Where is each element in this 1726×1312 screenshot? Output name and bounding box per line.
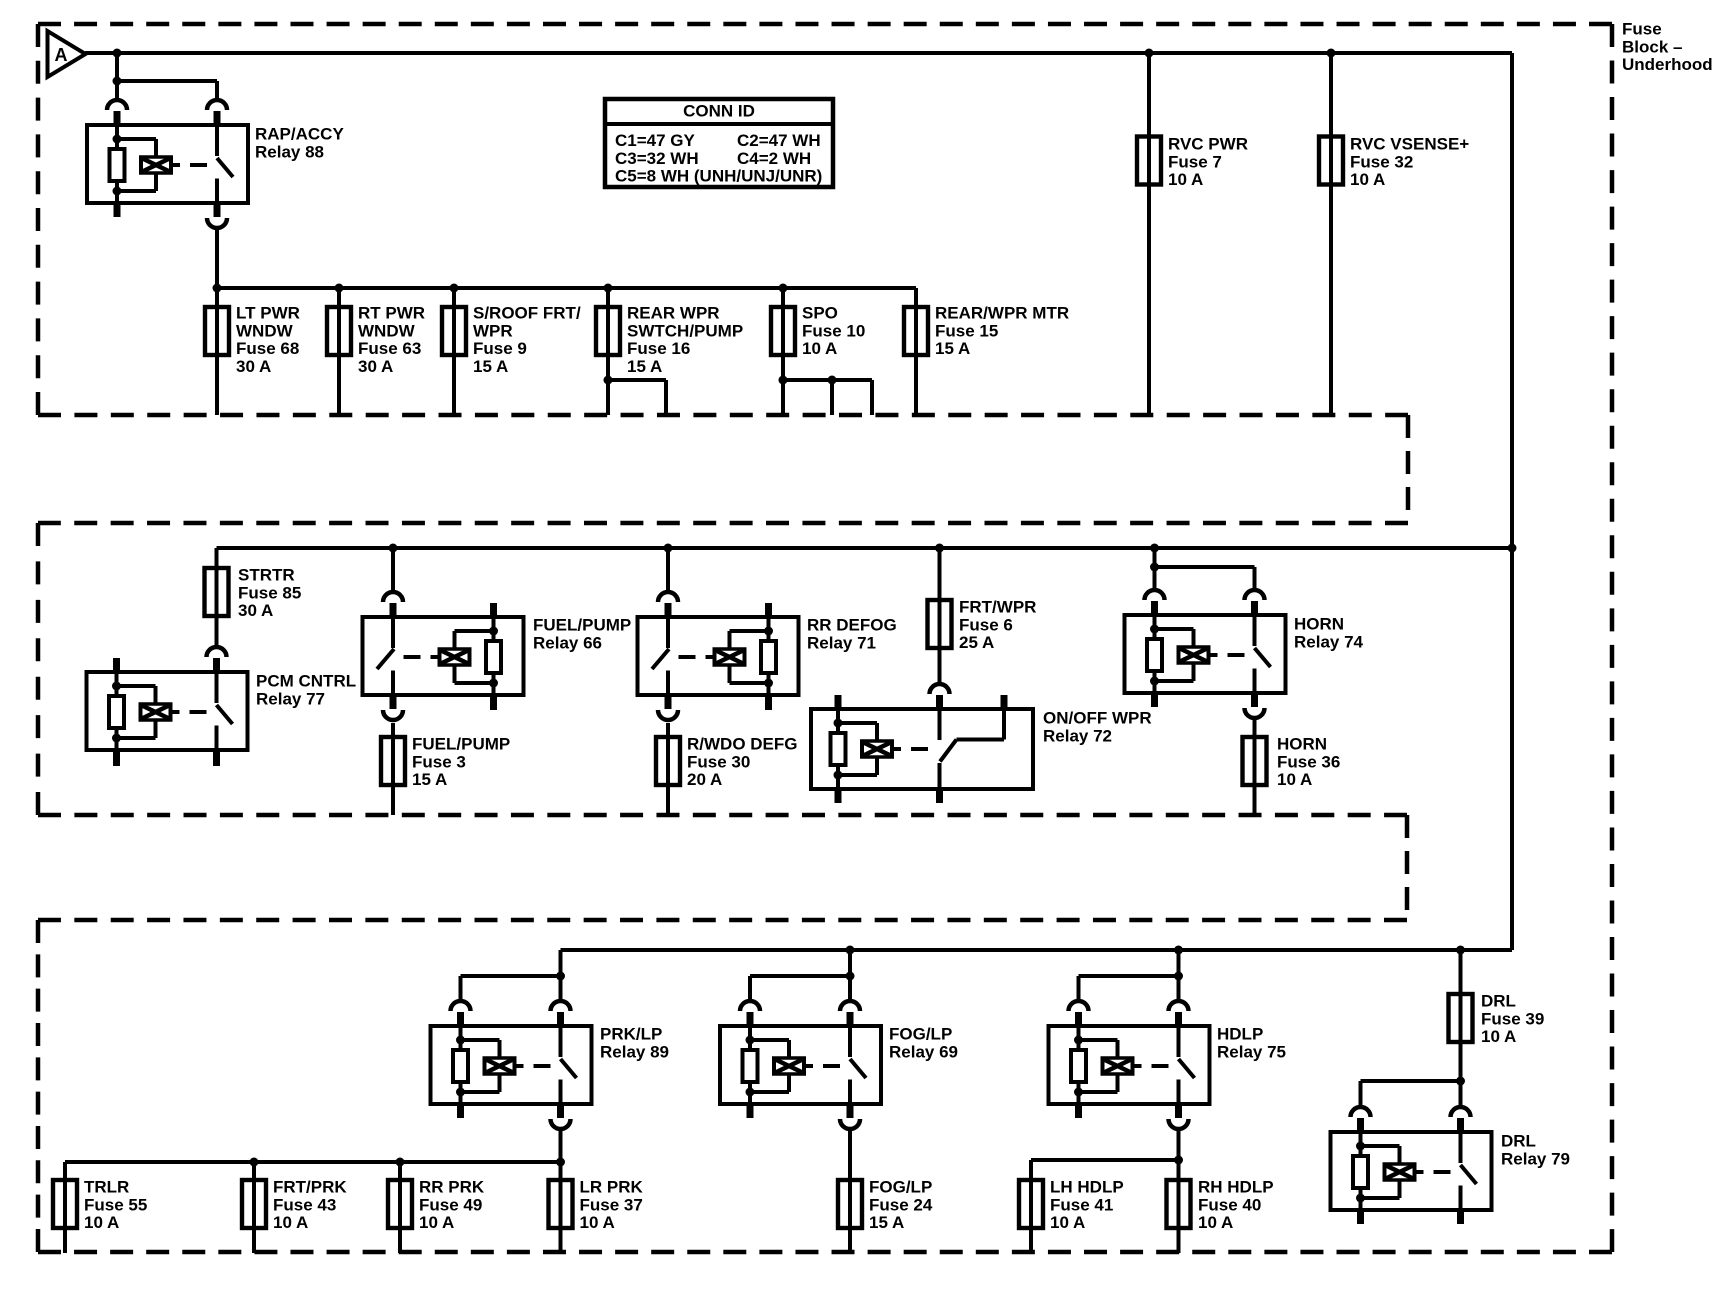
- svg-text:FRT/WPR: FRT/WPR: [959, 598, 1036, 617]
- wire DRL Fuse 39 drop: [1459, 950, 1463, 1081]
- wire drop for fuse F68 LT PWR WNDW: [215, 288, 219, 415]
- connector arc ON/OFF WPR relay switch pin: [930, 684, 950, 709]
- label RR DEFOG Relay 71: [807, 616, 897, 653]
- label fuse F16 REAR WPR SWTCH/PUMP: [627, 304, 743, 376]
- svg-text:Fuse 32: Fuse 32: [1350, 152, 1413, 171]
- svg-text:15 A: 15 A: [473, 357, 508, 376]
- wire feed HDLP relay pins: [1079, 950, 1184, 1000]
- label STRTR Fuse 85 30 A: [238, 566, 301, 621]
- svg-text:Fuse 15: Fuse 15: [935, 321, 998, 340]
- svg-text:C4=2 WH: C4=2 WH: [737, 149, 811, 168]
- fuse FOG/LP Fuse 24: [838, 1180, 862, 1228]
- HORN relay coil bottom stub: [1151, 693, 1158, 707]
- fuse F55 TRLR: [53, 1180, 77, 1228]
- svg-text:WPR: WPR: [473, 321, 513, 340]
- relay HORN Relay 74: [1125, 615, 1286, 693]
- RR DEFOG relay coil top stub: [765, 603, 772, 617]
- label fuse F68 LT PWR WNDW: [236, 304, 300, 376]
- label PRK/LP Relay 89: [600, 1025, 669, 1062]
- dashed partition between middle and bottom sections: [38, 815, 1407, 920]
- label HORN Relay 74: [1294, 615, 1364, 652]
- label DRL Fuse 39 10 A: [1481, 992, 1544, 1047]
- wire STRTR fuse drop: [215, 548, 219, 646]
- svg-text:FOG/LP: FOG/LP: [889, 1025, 952, 1044]
- wire drop fuse F37 LR PRK: [559, 1162, 563, 1253]
- svg-text:RAP/ACCY: RAP/ACCY: [255, 125, 344, 144]
- svg-text:Fuse 85: Fuse 85: [238, 583, 301, 602]
- svg-text:HORN: HORN: [1294, 615, 1344, 634]
- svg-text:WNDW: WNDW: [236, 321, 294, 340]
- svg-text:S/ROOF FRT/: S/ROOF FRT/: [473, 304, 581, 323]
- relay RR DEFOG Relay 71: [638, 617, 799, 695]
- HDLP relay coil bottom stub: [1075, 1104, 1082, 1118]
- wire FUEL/PUMP relay output to Fuse 3: [391, 723, 395, 815]
- fuse DRL Fuse 39: [1449, 994, 1473, 1042]
- wire HORN relay output to Fuse 36: [1253, 719, 1257, 815]
- svg-text:Block –: Block –: [1622, 37, 1682, 56]
- label R/WDO DEFG Fuse 30 20 A: [687, 735, 798, 790]
- svg-text:SWTCH/PUMP: SWTCH/PUMP: [627, 321, 743, 340]
- wire RVC PWR drop: [1147, 53, 1151, 415]
- relay ON/OFF WPR Relay 72: [811, 709, 1033, 789]
- svg-text:Fuse 30: Fuse 30: [687, 752, 750, 771]
- svg-text:Relay 79: Relay 79: [1501, 1149, 1570, 1168]
- wire feed FOG/LP relay pins: [750, 950, 855, 1000]
- svg-text:Fuse 43: Fuse 43: [273, 1195, 336, 1214]
- svg-text:Fuse 37: Fuse 37: [580, 1195, 643, 1214]
- svg-text:RT PWR: RT PWR: [358, 304, 425, 323]
- svg-text:REAR/WPR MTR: REAR/WPR MTR: [935, 304, 1069, 323]
- svg-text:R/WDO DEFG: R/WDO DEFG: [687, 735, 798, 754]
- junction middle bus at main vertical: [1508, 544, 1517, 553]
- svg-text:Fuse 10: Fuse 10: [802, 321, 865, 340]
- wire FRT/WPR fuse drop: [938, 548, 942, 683]
- connector arc FUEL/PUMP relay switch output: [383, 695, 403, 720]
- svg-text:15 A: 15 A: [412, 770, 447, 789]
- fuse RH HDLP Fuse 40: [1167, 1180, 1191, 1228]
- fuse R/WDO DEFG Fuse 30: [656, 737, 680, 785]
- fuse F9 S/ROOF FRT/WPR: [442, 307, 466, 355]
- junction top bus x=454: [450, 284, 459, 293]
- wire RAP/ACCY output to top fuse bus: [215, 229, 219, 288]
- wire RVC VSENSE+ drop: [1329, 53, 1333, 415]
- junction on feed bus at RVC PWR: [1145, 49, 1154, 58]
- junction bottom bus at HDLP relay: [1174, 946, 1183, 955]
- svg-text:LH HDLP: LH HDLP: [1050, 1178, 1124, 1197]
- svg-text:Relay 77: Relay 77: [256, 689, 325, 708]
- svg-text:Fuse 68: Fuse 68: [236, 339, 299, 358]
- svg-text:15 A: 15 A: [935, 339, 970, 358]
- label RAP/ACCY Relay 88: [255, 125, 344, 162]
- svg-text:30 A: 30 A: [358, 357, 393, 376]
- svg-text:HORN: HORN: [1277, 735, 1327, 754]
- label fuse F49 RR PRK: [419, 1178, 485, 1233]
- label HORN Fuse 36 10 A: [1277, 735, 1340, 790]
- svg-text:Fuse 49: Fuse 49: [419, 1195, 482, 1214]
- svg-text:Underhood: Underhood: [1622, 55, 1713, 74]
- svg-text:10 A: 10 A: [273, 1213, 308, 1232]
- ON/OFF WPR relay bottom stubs: [835, 789, 944, 803]
- wire parking lamp fuse bus: [65, 1160, 561, 1164]
- junction bottom bus at FOG/LP relay: [846, 946, 855, 955]
- svg-text:Relay 89: Relay 89: [600, 1042, 669, 1061]
- PRK/LP relay coil bottom stub: [457, 1104, 464, 1118]
- svg-text:10 A: 10 A: [580, 1213, 615, 1232]
- wire feed RR DEFOG relay switch: [666, 548, 670, 591]
- connector arcs PRK/LP relay top pins: [451, 1001, 571, 1026]
- label fuse F37 LR PRK: [580, 1178, 644, 1233]
- svg-text:C5=8 WH (UNH/UNJ/UNR): C5=8 WH (UNH/UNJ/UNR): [615, 167, 822, 186]
- svg-text:10 A: 10 A: [1277, 770, 1312, 789]
- svg-text:FUEL/PUMP: FUEL/PUMP: [412, 735, 510, 754]
- connector arc FOG/LP relay switch output: [840, 1104, 860, 1129]
- wire feed DRL relay pins: [1361, 1077, 1466, 1107]
- label ON/OFF WPR Relay 72: [1043, 709, 1152, 746]
- relay HDLP Relay 75: [1049, 1026, 1210, 1104]
- svg-text:RR PRK: RR PRK: [419, 1178, 485, 1197]
- junction top bus x=217: [213, 284, 222, 293]
- svg-text:DRL: DRL: [1501, 1132, 1536, 1151]
- wire branch to RAP/ACCY relay switch pin: [113, 77, 218, 100]
- svg-text:FUEL/PUMP: FUEL/PUMP: [533, 616, 631, 635]
- svg-text:10 A: 10 A: [1168, 170, 1203, 189]
- FUEL/PUMP relay coil top stub: [490, 603, 497, 617]
- connector arcs HDLP relay top pins: [1069, 1001, 1189, 1026]
- relay FUEL/PUMP Relay 66: [363, 617, 524, 695]
- label fuse F63 RT PWR WNDW: [358, 304, 425, 376]
- label fuse F43 FRT/PRK: [273, 1178, 347, 1233]
- svg-text:Fuse 9: Fuse 9: [473, 339, 527, 358]
- connector arc HDLP relay switch output: [1169, 1104, 1189, 1129]
- label RVC PWR Fuse 7 10 A: [1168, 135, 1248, 190]
- svg-text:CONN ID: CONN ID: [683, 102, 755, 121]
- fuse RVC VSENSE+ Fuse 32: [1319, 137, 1343, 185]
- svg-text:Relay 66: Relay 66: [533, 633, 602, 652]
- connector arc FUEL/PUMP relay switch pin: [383, 592, 403, 617]
- svg-text:10 A: 10 A: [1198, 1213, 1233, 1232]
- connector arc RAP/ACCY switch output: [207, 203, 227, 228]
- label PCM CNTRL Relay 77: [256, 672, 356, 709]
- svg-text:C1=47 GY: C1=47 GY: [615, 131, 696, 150]
- svg-text:DRL: DRL: [1481, 992, 1516, 1011]
- wire FOG/LP output to Fuse 24: [848, 1130, 852, 1253]
- connector arcs RAP/ACCY relay top pins: [107, 100, 227, 125]
- junction top bus x=783: [779, 284, 788, 293]
- svg-text:SPO: SPO: [802, 304, 838, 323]
- wire top fuse row bus: [217, 286, 916, 290]
- fuse F68 LT PWR WNDW: [205, 307, 229, 355]
- wire drop fuse F49 RR PRK: [398, 1162, 402, 1253]
- svg-text:30 A: 30 A: [236, 357, 271, 376]
- connector arcs FOG/LP relay top pins: [740, 1001, 860, 1026]
- wire feed FUEL/PUMP relay switch: [391, 548, 395, 591]
- fuse F15 REAR/WPR MTR: [904, 307, 928, 355]
- PCM CNTRL relay coil top stub: [113, 658, 120, 672]
- svg-text:Relay 72: Relay 72: [1043, 726, 1112, 745]
- fuse F16 REAR WPR SWTCH/PUMP: [596, 307, 620, 355]
- junction middle bus at HORN relay: [1150, 544, 1159, 553]
- fuse F63 RT PWR WNDW: [327, 307, 351, 355]
- svg-text:10 A: 10 A: [1050, 1213, 1085, 1232]
- svg-text:10 A: 10 A: [84, 1213, 119, 1232]
- fuse F37 LR PRK: [549, 1180, 573, 1228]
- svg-text:Fuse 3: Fuse 3: [412, 752, 466, 771]
- fuse F49 RR PRK: [388, 1180, 412, 1228]
- svg-text:Fuse 7: Fuse 7: [1168, 152, 1222, 171]
- label FOG/LP Relay 69: [889, 1025, 958, 1062]
- svg-text:Fuse 24: Fuse 24: [869, 1195, 933, 1214]
- wire feed PRK/LP relay pins: [461, 950, 566, 1000]
- wire drop for fuse F16 REAR WPR SWTCH/PUMP: [606, 288, 610, 415]
- svg-text:PCM CNTRL: PCM CNTRL: [256, 672, 356, 691]
- label FRT/WPR Fuse 6 25 A: [959, 598, 1036, 653]
- svg-text:15 A: 15 A: [869, 1213, 904, 1232]
- FUEL/PUMP relay coil bottom stub: [490, 695, 497, 710]
- junction middle bus at FRT/WPR fuse: [935, 544, 944, 553]
- svg-text:HDLP: HDLP: [1217, 1025, 1263, 1044]
- node A power feed triangle: [48, 31, 86, 77]
- fuse F43 FRT/PRK: [242, 1180, 266, 1228]
- svg-text:ON/OFF WPR: ON/OFF WPR: [1043, 709, 1152, 728]
- label FUEL/PUMP Relay 66: [533, 616, 631, 653]
- svg-text:Fuse: Fuse: [1622, 20, 1662, 39]
- svg-text:Fuse 39: Fuse 39: [1481, 1009, 1544, 1028]
- relay RAP/ACCY Relay 88: [87, 125, 248, 203]
- relay FOG/LP Relay 69: [720, 1026, 881, 1104]
- fuse FRT/WPR Fuse 6: [928, 600, 952, 648]
- svg-text:TRLR: TRLR: [84, 1178, 129, 1197]
- label fuse F10 SPO: [802, 304, 865, 359]
- label Fuse Block - Underhood: [1622, 20, 1713, 75]
- connector arcs DRL relay top pins: [1351, 1107, 1471, 1132]
- connector arc RR DEFOG relay switch output: [658, 695, 678, 720]
- svg-text:STRTR: STRTR: [238, 566, 295, 585]
- svg-text:Fuse 40: Fuse 40: [1198, 1195, 1261, 1214]
- svg-text:Fuse 16: Fuse 16: [627, 339, 690, 358]
- junction middle bus at RR DEFOG relay: [664, 544, 673, 553]
- wire drop fuse F55 TRLR: [63, 1162, 67, 1253]
- wire jog below Fuse 16: [604, 376, 667, 416]
- svg-text:REAR WPR: REAR WPR: [627, 304, 720, 323]
- connector arc HORN relay switch output: [1245, 693, 1265, 718]
- wire drop for fuse F10 SPO: [781, 288, 785, 415]
- junction middle bus at FUEL/PUMP relay: [389, 544, 398, 553]
- junction on feed bus at RAP/ACCY: [113, 49, 122, 58]
- junctions parking lamp fuse bus: [250, 1158, 566, 1167]
- label FUEL/PUMP Fuse 3 15 A: [412, 735, 510, 790]
- wire bottom section feed bus: [561, 948, 1513, 952]
- wire jog below Fuse 10 SPO: [779, 376, 873, 416]
- svg-text:FOG/LP: FOG/LP: [869, 1178, 932, 1197]
- label fuse F9 S/ROOF FRT/WPR: [473, 304, 581, 376]
- wire RR DEFOG relay output to Fuse 30: [666, 723, 670, 815]
- fuse RVC PWR Fuse 7: [1137, 137, 1161, 185]
- fuse HORN Fuse 36: [1243, 737, 1267, 785]
- svg-text:C3=32 WH: C3=32 WH: [615, 149, 699, 168]
- RR DEFOG relay coil bottom stub: [765, 695, 772, 710]
- wire drop for fuse F9 S/ROOF FRT/WPR: [452, 288, 456, 415]
- svg-text:10 A: 10 A: [1350, 170, 1385, 189]
- label fuse F15 REAR/WPR MTR: [935, 304, 1069, 359]
- label RH HDLP Fuse 40 10 A: [1198, 1178, 1274, 1233]
- fuse STRTR Fuse 85: [205, 568, 229, 616]
- wire PRK/LP output to parking lamp fuse bus: [559, 1130, 563, 1162]
- wire feed HORN relay pins: [1150, 548, 1255, 589]
- svg-text:Relay 74: Relay 74: [1294, 632, 1364, 651]
- wire middle section bus: [217, 546, 1513, 550]
- junction on feed bus at RVC VSENSE: [1327, 49, 1336, 58]
- junction bottom bus at PRK/LP relay: [0, 0, 1, 1]
- svg-text:LT PWR: LT PWR: [236, 304, 300, 323]
- svg-text:10 A: 10 A: [802, 339, 837, 358]
- wire HDLP output and jog to headlamp fuses: [1031, 1130, 1183, 1253]
- CONN ID table: [605, 99, 833, 187]
- junction bottom bus at DRL fuse: [1456, 946, 1465, 955]
- connector arcs HORN relay top pins: [1145, 590, 1265, 615]
- label HDLP Relay 75: [1217, 1025, 1286, 1062]
- relay PRK/LP Relay 89: [431, 1026, 592, 1104]
- svg-text:FRT/PRK: FRT/PRK: [273, 1178, 347, 1197]
- fuse LH HDLP Fuse 41: [1019, 1180, 1043, 1228]
- svg-text:A: A: [55, 45, 68, 65]
- svg-text:RVC PWR: RVC PWR: [1168, 135, 1248, 154]
- wire drop fuse F43 FRT/PRK: [252, 1162, 256, 1253]
- label fuse F55 TRLR: [84, 1178, 147, 1233]
- FOG/LP relay coil bottom stub: [747, 1104, 754, 1118]
- svg-text:30 A: 30 A: [238, 601, 273, 620]
- svg-text:Fuse 36: Fuse 36: [1277, 752, 1340, 771]
- svg-text:Fuse 63: Fuse 63: [358, 339, 421, 358]
- label RVC VSENSE+ Fuse 32 10 A: [1350, 135, 1469, 190]
- wire main feed bus from node A across top: [85, 51, 1512, 55]
- connector arc PRK/LP relay switch output: [551, 1104, 571, 1129]
- label DRL Relay 79: [1501, 1132, 1570, 1169]
- wire feed to RAP/ACCY relay coil pin: [115, 53, 119, 99]
- svg-text:25 A: 25 A: [959, 633, 994, 652]
- svg-text:PRK/LP: PRK/LP: [600, 1025, 662, 1044]
- svg-text:Relay 71: Relay 71: [807, 633, 876, 652]
- connector arc PCM CNTRL relay switch pin: [207, 647, 227, 672]
- label LH HDLP Fuse 41 10 A: [1050, 1178, 1124, 1233]
- RAP/ACCY relay coil bottom stub: [114, 203, 121, 217]
- connector arc RR DEFOG relay switch pin: [658, 592, 678, 617]
- svg-text:WNDW: WNDW: [358, 321, 416, 340]
- svg-text:10 A: 10 A: [419, 1213, 454, 1232]
- svg-text:RVC VSENSE+: RVC VSENSE+: [1350, 135, 1469, 154]
- ON/OFF WPR relay unconnected top stubs: [835, 695, 1008, 709]
- junction top bus x=608: [604, 284, 613, 293]
- DRL relay bottom stubs: [1357, 1210, 1464, 1224]
- svg-text:Relay 75: Relay 75: [1217, 1042, 1286, 1061]
- svg-text:Fuse 6: Fuse 6: [959, 615, 1013, 634]
- dashed partition between top and middle sections: [38, 415, 1408, 523]
- fuse F10 SPO: [771, 307, 795, 355]
- svg-text:Fuse 41: Fuse 41: [1050, 1195, 1113, 1214]
- relay DRL Relay 79: [1331, 1132, 1492, 1210]
- label FOG/LP Fuse 24 15 A: [869, 1178, 933, 1233]
- svg-text:LR PRK: LR PRK: [580, 1178, 644, 1197]
- junction top bus x=339: [335, 284, 344, 293]
- wire drop for fuse F15 REAR/WPR MTR: [914, 288, 918, 415]
- svg-text:Relay 88: Relay 88: [255, 142, 324, 161]
- svg-text:15 A: 15 A: [627, 357, 662, 376]
- svg-text:RR DEFOG: RR DEFOG: [807, 616, 897, 635]
- svg-text:10 A: 10 A: [1481, 1027, 1516, 1046]
- fuse FUEL/PUMP Fuse 3: [381, 737, 405, 785]
- svg-text:RH HDLP: RH HDLP: [1198, 1178, 1274, 1197]
- relay PCM CNTRL Relay 77: [87, 672, 248, 750]
- PCM CNTRL relay bottom stubs: [113, 750, 220, 766]
- svg-text:C2=47 WH: C2=47 WH: [737, 131, 821, 150]
- svg-text:20 A: 20 A: [687, 770, 722, 789]
- svg-text:Relay 69: Relay 69: [889, 1042, 958, 1061]
- wire main vertical feed at right: [1510, 53, 1514, 950]
- wire drop for fuse F63 RT PWR WNDW: [337, 288, 341, 415]
- svg-text:Fuse 55: Fuse 55: [84, 1195, 147, 1214]
